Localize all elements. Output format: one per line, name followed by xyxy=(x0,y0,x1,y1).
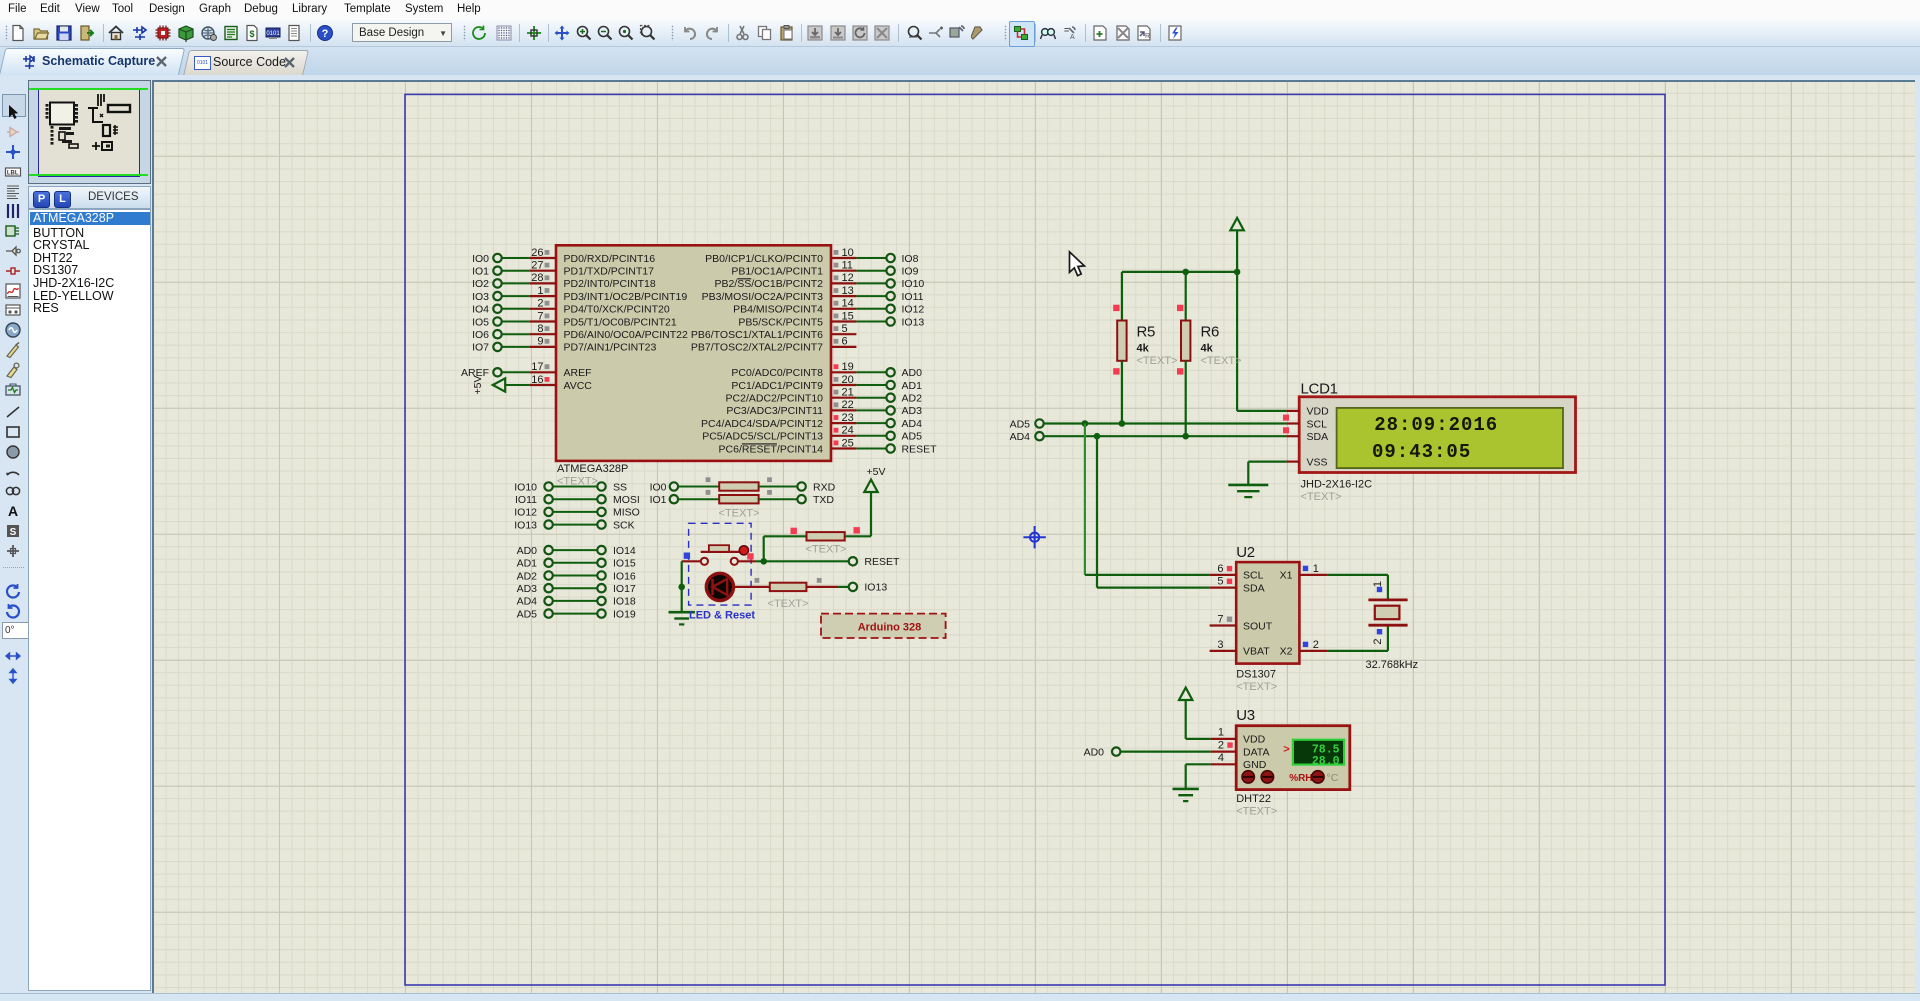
LCD1 part name xyxy=(1301,479,1373,504)
svg-text:28.0: 28.0 xyxy=(1312,755,1340,768)
svg-text:27: 27 xyxy=(531,260,543,272)
LCD1 display screen xyxy=(1337,408,1563,468)
svg-text:<TEXT>: <TEXT> xyxy=(806,544,847,556)
U1 pin 9 PD7/AIN1/PCINT23 with terminal IO7 xyxy=(472,336,656,354)
svg-text:AD4: AD4 xyxy=(517,596,538,608)
svg-text:10: 10 xyxy=(842,247,854,259)
terminal pair AD5 to IO19 xyxy=(517,608,636,620)
terminal pair AD4 to IO18 xyxy=(517,596,636,608)
U2 pin 1 X1 xyxy=(1280,563,1328,582)
svg-text:2: 2 xyxy=(1313,639,1319,651)
svg-text:PD4/T0/XCK/PCINT20: PD4/T0/XCK/PCINT20 xyxy=(564,304,670,316)
svg-text:13: 13 xyxy=(842,285,854,297)
svg-text:IO9: IO9 xyxy=(902,266,919,278)
svg-text:8: 8 xyxy=(537,323,543,335)
svg-text:14: 14 xyxy=(842,298,854,310)
svg-text:IO10: IO10 xyxy=(514,481,537,493)
svg-text:09:43:05: 09:43:05 xyxy=(1372,441,1471,463)
svg-text:AREF: AREF xyxy=(564,367,592,379)
svg-text:24: 24 xyxy=(842,425,854,437)
U2 pin 6 SCL xyxy=(1210,563,1264,582)
svg-text:26: 26 xyxy=(531,247,543,259)
terminal pair IO12 to MISO xyxy=(514,507,640,519)
svg-text:IO1: IO1 xyxy=(650,494,667,506)
svg-text:ATMEGA328P: ATMEGA328P xyxy=(557,463,628,475)
svg-text:IO2: IO2 xyxy=(472,278,489,290)
svg-text:15: 15 xyxy=(842,310,854,322)
svg-text:<TEXT>: <TEXT> xyxy=(1236,806,1277,818)
terminal pair IO10 to SS xyxy=(514,481,627,493)
svg-text:AD5: AD5 xyxy=(902,431,923,443)
svg-text:SCL: SCL xyxy=(1307,418,1328,430)
wire RESET net xyxy=(738,560,849,562)
svg-text:MISO: MISO xyxy=(613,507,640,519)
svg-text:PD7/AIN1/PCINT23: PD7/AIN1/PCINT23 xyxy=(564,342,657,354)
wire X1 to crystal xyxy=(1327,575,1388,600)
svg-text:32.768kHz: 32.768kHz xyxy=(1366,659,1419,671)
serial resistors value label xyxy=(719,508,760,520)
svg-text:<TEXT>: <TEXT> xyxy=(1301,491,1342,503)
svg-text:IO8: IO8 xyxy=(902,253,919,265)
svg-text:R6: R6 xyxy=(1201,323,1220,340)
svg-text:IO13: IO13 xyxy=(902,316,925,328)
U1 pin 13 PB3/MOSI/OC2A/PCINT3 with terminal IO11 xyxy=(702,285,924,303)
svg-text:AD4: AD4 xyxy=(1010,431,1031,443)
svg-text:R5: R5 xyxy=(1137,323,1156,340)
IC U3 DHT22 body xyxy=(1236,726,1350,790)
U2 pin 3 VBAT xyxy=(1210,639,1271,658)
svg-text:4k: 4k xyxy=(1137,342,1150,354)
svg-text:PB1/OC1A/PCINT1: PB1/OC1A/PCINT1 xyxy=(731,266,823,278)
svg-text:11: 11 xyxy=(842,260,853,272)
svg-text:SCL: SCL xyxy=(1243,570,1264,582)
svg-text:PC3/ADC3/PCINT11: PC3/ADC3/PCINT11 xyxy=(726,405,823,417)
+5V power symbol (DHT22) xyxy=(1179,688,1192,700)
terminal AD4 (I2C) xyxy=(1010,431,1044,443)
svg-text:16: 16 xyxy=(531,374,543,386)
svg-text:2: 2 xyxy=(1218,739,1224,751)
U1 pin 28 PD2/INT0/PCINT18 with terminal IO2 xyxy=(472,272,656,290)
IC U2 DS1307 body xyxy=(1236,562,1299,664)
origin marker xyxy=(1023,526,1045,548)
LED D1 xyxy=(706,573,733,600)
wire resistor to +5V xyxy=(845,492,871,536)
LCD1 pin SCL xyxy=(1283,415,1327,431)
U3 pin 1 VDD xyxy=(1211,727,1266,746)
svg-text:JHD-2X16-I2C: JHD-2X16-I2C xyxy=(1301,479,1373,491)
svg-text:4: 4 xyxy=(1218,752,1224,764)
resistor R5 4k xyxy=(1113,272,1177,424)
svg-text:PB6/TOSC1/XTAL1/PCINT6: PB6/TOSC1/XTAL1/PCINT6 xyxy=(691,329,823,341)
U1 pin 10 PB0/ICP1/CLKO/PCINT0 with terminal IO8 xyxy=(705,247,918,265)
svg-text:6: 6 xyxy=(1217,563,1223,575)
U1 pin 27 PD1/TXD/PCINT17 with terminal IO1 xyxy=(472,260,654,278)
svg-text:<TEXT>: <TEXT> xyxy=(768,598,809,610)
+5V power symbol (Arduino) xyxy=(864,466,885,492)
svg-text:AD0: AD0 xyxy=(1084,746,1105,758)
junction SDA-R6 xyxy=(1182,433,1189,440)
svg-text:<TEXT>: <TEXT> xyxy=(1236,681,1277,693)
svg-text:IO4: IO4 xyxy=(472,304,489,316)
svg-text:RESET: RESET xyxy=(902,443,938,455)
svg-text:IO5: IO5 xyxy=(472,316,489,328)
svg-text:IO13: IO13 xyxy=(514,519,537,531)
svg-text:IO17: IO17 xyxy=(613,583,636,595)
sheet border xyxy=(405,94,1665,985)
svg-text:PC4/ADC4/SDA/PCINT12: PC4/ADC4/SDA/PCINT12 xyxy=(701,418,823,430)
svg-text:LCD1: LCD1 xyxy=(1301,381,1338,398)
junction R6 top xyxy=(1182,269,1189,276)
U1 name label ATMEGA328P xyxy=(557,463,628,488)
wire AD0 to U3 DATA xyxy=(1121,750,1211,752)
svg-text:DHT22: DHT22 xyxy=(1236,793,1271,805)
svg-text:PC1/ADC1/PCINT9: PC1/ADC1/PCINT9 xyxy=(731,380,823,392)
U3 pin 4 GND xyxy=(1211,752,1267,771)
U1 pin 12 PB2/SS/OC1B/PCINT2 with terminal IO10 xyxy=(714,272,924,290)
svg-text:IO18: IO18 xyxy=(613,596,636,608)
U1 pin 11 PB1/OC1A/PCINT1 with terminal IO9 xyxy=(731,260,918,278)
svg-text:PC0/ADC0/PCINT8: PC0/ADC0/PCINT8 xyxy=(731,367,823,379)
U1 pin 20 PC1/ADC1/PCINT9 with terminal AD1 xyxy=(731,374,922,392)
svg-text:SCK: SCK xyxy=(613,519,635,531)
svg-text:3: 3 xyxy=(1217,639,1223,651)
U1 pin 26 PD0/RXD/PCINT16 with terminal IO0 xyxy=(472,247,655,265)
svg-text:AD4: AD4 xyxy=(902,418,923,430)
LCD1 pin VSS xyxy=(1287,457,1328,469)
svg-text:4k: 4k xyxy=(1201,342,1214,354)
svg-text:X2: X2 xyxy=(1280,646,1293,658)
ground symbol DHT22 xyxy=(1173,789,1199,801)
svg-text:GND: GND xyxy=(1243,759,1267,771)
svg-text:MOSI: MOSI xyxy=(613,494,640,506)
junction +5V stem xyxy=(1234,269,1241,276)
LCD1 display text time xyxy=(1372,441,1471,463)
svg-text:12: 12 xyxy=(842,272,854,284)
LCD1 display text date xyxy=(1374,414,1498,436)
svg-text:IO12: IO12 xyxy=(514,507,537,519)
svg-text:DATA: DATA xyxy=(1243,746,1269,758)
svg-text:SDA: SDA xyxy=(1307,431,1329,443)
IC U1 ATMEGA328P body xyxy=(556,245,831,461)
svg-text:5: 5 xyxy=(1217,576,1223,588)
resistor between IO0 and RXD xyxy=(650,477,836,493)
Arduino 328 sub-circuit box xyxy=(821,614,946,638)
U1 pin 24 PC5/ADC5/SCL/PCINT13 with terminal AD5 xyxy=(702,425,922,443)
terminal AD0 (DHT22 data) xyxy=(1084,746,1121,758)
wire SCL branch down to U2 (highlighted) xyxy=(1085,424,1210,575)
svg-text:SS: SS xyxy=(613,481,627,493)
terminal pair AD2 to IO16 xyxy=(517,570,636,582)
terminal pair IO13 to SCK xyxy=(514,519,634,531)
wire button left contact to LED junction xyxy=(682,561,701,587)
label LED & Reset xyxy=(689,609,755,621)
svg-text:AD2: AD2 xyxy=(517,570,538,582)
selection handle squares xyxy=(684,553,754,560)
LED series resistor xyxy=(734,578,849,610)
U1 pin 19 PC0/ADC0/PCINT8 with terminal AD0 xyxy=(731,361,922,379)
wire SCL net AD5 to LCD xyxy=(1044,422,1287,424)
crystal frequency label xyxy=(1366,659,1419,671)
svg-text:PD1/TXD/PCINT17: PD1/TXD/PCINT17 xyxy=(564,266,655,278)
+5V power symbol (I2C rail) xyxy=(1230,218,1243,230)
svg-text:7: 7 xyxy=(1217,614,1223,626)
svg-text:PD2/INT0/PCINT18: PD2/INT0/PCINT18 xyxy=(564,278,656,290)
svg-text:7: 7 xyxy=(537,310,543,322)
svg-text:17: 17 xyxy=(531,361,543,373)
resistor between IO1 and TXD xyxy=(650,490,835,506)
svg-text:AD0: AD0 xyxy=(902,367,923,379)
svg-text:TXD: TXD xyxy=(813,494,834,506)
svg-text:IO16: IO16 xyxy=(613,570,636,582)
svg-text:PD0/RXD/PCINT16: PD0/RXD/PCINT16 xyxy=(564,253,656,265)
U1 pin 5 PB6/TOSC1/XTAL1/PCINT6 stub xyxy=(691,323,856,341)
svg-text:28:09:2016: 28:09:2016 xyxy=(1374,414,1498,436)
LCD1 pin VDD xyxy=(1287,406,1329,418)
svg-text:AVCC: AVCC xyxy=(564,380,593,392)
svg-text:IO3: IO3 xyxy=(472,291,489,303)
svg-text:PC6/RESET/PCINT14: PC6/RESET/PCINT14 xyxy=(719,443,824,455)
svg-text:PC2/ADC2/PCINT10: PC2/ADC2/PCINT10 xyxy=(726,393,824,405)
svg-text:22: 22 xyxy=(842,399,854,411)
wire U3 GND to ground xyxy=(1186,764,1211,789)
LCD1 JHD-2X16-I2C body xyxy=(1299,397,1575,473)
svg-text:PB5/SCK/PCINT5: PB5/SCK/PCINT5 xyxy=(738,316,823,328)
svg-text:SDA: SDA xyxy=(1243,582,1265,594)
U2 pin 7 SOUT xyxy=(1210,614,1273,633)
U3 humidity temperature display xyxy=(1283,740,1344,768)
junction SCL branch to U2 xyxy=(1082,420,1089,427)
svg-text:IO15: IO15 xyxy=(613,558,636,570)
svg-text:+5V: +5V xyxy=(472,376,484,395)
svg-text:AD1: AD1 xyxy=(902,380,923,392)
svg-text:LED & Reset: LED & Reset xyxy=(689,609,755,621)
svg-text:28: 28 xyxy=(531,272,543,284)
svg-text:IO12: IO12 xyxy=(902,304,925,316)
svg-text:VSS: VSS xyxy=(1307,457,1328,469)
resistor R6 4k xyxy=(1177,272,1241,436)
svg-text:+5V: +5V xyxy=(867,466,886,478)
mouse cursor xyxy=(1070,252,1085,276)
terminal pair AD3 to IO17 xyxy=(517,583,636,595)
svg-text:RXD: RXD xyxy=(813,481,836,493)
U1 pin 7 PD5/T1/OC0B/PCINT21 with terminal IO5 xyxy=(472,310,677,328)
svg-text:U2: U2 xyxy=(1236,544,1255,561)
svg-text:20: 20 xyxy=(842,374,854,386)
U2 pin 2 X2 xyxy=(1280,639,1328,658)
selection box LED & Reset xyxy=(689,523,752,605)
U1 pin 2 PD4/T0/XCK/PCINT20 with terminal IO4 xyxy=(472,298,670,316)
svg-text:>: > xyxy=(1283,744,1289,756)
svg-text:9: 9 xyxy=(537,336,543,348)
svg-text:AD0: AD0 xyxy=(517,545,538,557)
svg-text:6: 6 xyxy=(842,336,848,348)
U1 pin 21 PC2/ADC2/PCINT10 with terminal AD2 xyxy=(726,387,923,405)
svg-text:IO10: IO10 xyxy=(902,278,925,290)
svg-text:AD1: AD1 xyxy=(517,558,538,570)
pull-up resistor to +5V xyxy=(791,527,860,555)
svg-text:<TEXT>: <TEXT> xyxy=(1137,355,1178,367)
junction at LED anode xyxy=(678,584,685,591)
wire junction up to pull-up resistor xyxy=(764,536,807,561)
wire +5V to U3 VDD xyxy=(1186,700,1211,739)
svg-text:AD3: AD3 xyxy=(517,583,538,595)
svg-text:PB4/MISO/PCINT4: PB4/MISO/PCINT4 xyxy=(733,304,823,316)
terminal RESET xyxy=(849,556,900,568)
svg-text:IO13: IO13 xyxy=(864,582,887,594)
U1 pin 1 PD3/INT1/OC2B/PCINT19 with terminal IO3 xyxy=(472,285,687,303)
terminal AD5 (I2C) xyxy=(1010,418,1044,430)
svg-text:PD3/INT1/OC2B/PCINT19: PD3/INT1/OC2B/PCINT19 xyxy=(564,291,688,303)
U3 part name DHT22 xyxy=(1236,793,1277,818)
U1 pin 23 PC4/ADC4/SDA/PCINT12 with terminal AD4 xyxy=(701,412,922,430)
wire junction down to ground xyxy=(681,587,683,612)
svg-text:2: 2 xyxy=(537,298,543,310)
U1 pin 17 AREF with terminal AREF xyxy=(461,361,592,379)
svg-text:PB0/ICP1/CLKO/PCINT0: PB0/ICP1/CLKO/PCINT0 xyxy=(705,253,823,265)
svg-text:PD5/T1/OC0B/PCINT21: PD5/T1/OC0B/PCINT21 xyxy=(564,316,677,328)
wire LCD VSS to ground xyxy=(1248,462,1286,485)
svg-text:IO7: IO7 xyxy=(472,342,489,354)
LCD1 pin SDA xyxy=(1283,427,1328,443)
U1 pin 15 PB5/SCK/PCINT5 with terminal IO13 xyxy=(738,310,924,328)
svg-text:IO0: IO0 xyxy=(472,253,489,265)
U1 pin 22 PC3/ADC3/PCINT11 with terminal AD3 xyxy=(726,399,922,417)
svg-text:PD6/AIN0/OC0A/PCINT22: PD6/AIN0/OC0A/PCINT22 xyxy=(564,329,688,341)
svg-text:IO19: IO19 xyxy=(613,608,636,620)
svg-text:VBAT: VBAT xyxy=(1243,646,1270,658)
U2 designator xyxy=(1236,544,1255,561)
svg-text:DS1307: DS1307 xyxy=(1236,669,1276,681)
svg-text:IO0: IO0 xyxy=(650,481,667,493)
wire X2 to crystal xyxy=(1327,625,1388,651)
svg-text:19: 19 xyxy=(842,361,854,373)
U2 part name DS1307 xyxy=(1236,669,1277,694)
ground symbol below LED xyxy=(669,612,695,624)
U1 pin 25 PC6/RESET/PCINT14 with terminal RESET xyxy=(719,437,938,455)
wire SDA branch down to U2 xyxy=(1097,436,1210,587)
svg-text:25: 25 xyxy=(842,437,854,449)
U1 pin 14 PB4/MISO/PCINT4 with terminal IO12 xyxy=(733,298,924,316)
svg-text:IO1: IO1 xyxy=(472,266,489,278)
svg-text:Arduino 328: Arduino 328 xyxy=(858,621,922,633)
terminal IO13 xyxy=(849,582,888,594)
ground symbol LCD xyxy=(1228,485,1268,497)
terminal pair IO11 to MOSI xyxy=(515,494,640,506)
svg-text:VDD: VDD xyxy=(1243,734,1266,746)
svg-text:AD5: AD5 xyxy=(1010,418,1031,430)
U1 pin 8 PD6/AIN0/OC0A/PCINT22 with terminal IO6 xyxy=(472,323,688,341)
wire +5V rail horizontal to R5 R6 xyxy=(1122,271,1237,273)
LCD1 designator xyxy=(1301,381,1338,398)
svg-text:23: 23 xyxy=(842,412,854,424)
terminal pair AD1 to IO15 xyxy=(517,558,636,570)
svg-text:IO11: IO11 xyxy=(902,291,924,303)
U1 pin 16 AVCC with +5V power symbol xyxy=(472,374,592,395)
svg-text:IO11: IO11 xyxy=(515,494,537,506)
svg-text:IO6: IO6 xyxy=(472,329,489,341)
U3 designator xyxy=(1236,707,1255,724)
terminal pair AD0 to IO14 xyxy=(517,545,636,557)
svg-text:VDD: VDD xyxy=(1307,406,1330,418)
U3 adjust knobs and unit labels xyxy=(1242,771,1339,784)
wire SDA net AD4 to LCD xyxy=(1044,435,1287,437)
svg-text:RESET: RESET xyxy=(864,556,900,568)
junction SDA branch to U2 xyxy=(1094,433,1101,440)
svg-text:1: 1 xyxy=(537,285,543,297)
svg-text:SOUT: SOUT xyxy=(1243,620,1273,632)
svg-text:1: 1 xyxy=(1313,563,1319,575)
crystal X1 32.768kHz xyxy=(1368,581,1407,645)
junction SCL-R5 xyxy=(1119,420,1126,427)
svg-text:PB7/TOSC2/XTAL2/PCINT7: PB7/TOSC2/XTAL2/PCINT7 xyxy=(691,342,823,354)
svg-text:IO14: IO14 xyxy=(613,545,636,557)
svg-text:1: 1 xyxy=(1218,727,1224,739)
pushbutton xyxy=(701,545,749,565)
svg-text:2: 2 xyxy=(1372,638,1384,644)
svg-text:X1: X1 xyxy=(1280,570,1293,582)
svg-text:<TEXT>: <TEXT> xyxy=(1201,355,1242,367)
svg-text:<TEXT>: <TEXT> xyxy=(719,508,760,520)
junction on RESET net xyxy=(760,558,767,565)
svg-text:%RH: %RH xyxy=(1289,773,1312,784)
svg-text:5: 5 xyxy=(842,323,848,335)
U3 pin 2 DATA xyxy=(1211,739,1270,758)
U1 pin 6 PB7/TOSC2/XTAL2/PCINT7 stub xyxy=(691,336,856,354)
svg-text:PC5/ADC5/SCL/PCINT13: PC5/ADC5/SCL/PCINT13 xyxy=(702,431,823,443)
svg-text:°C: °C xyxy=(1327,772,1339,784)
svg-text:U3: U3 xyxy=(1236,707,1255,724)
svg-text:PB3/MOSI/OC2A/PCINT3: PB3/MOSI/OC2A/PCINT3 xyxy=(702,291,824,303)
svg-text:PB2/SS/OC1B/PCINT2: PB2/SS/OC1B/PCINT2 xyxy=(714,278,823,290)
svg-text:AD3: AD3 xyxy=(902,405,923,417)
U2 pin 5 SDA xyxy=(1210,576,1265,595)
svg-text:1: 1 xyxy=(1372,581,1384,587)
svg-text:AD2: AD2 xyxy=(902,393,923,405)
svg-text:21: 21 xyxy=(842,387,854,399)
wire +5V rail down to LCD VDD xyxy=(1237,230,1287,411)
svg-text:AD5: AD5 xyxy=(517,608,538,620)
